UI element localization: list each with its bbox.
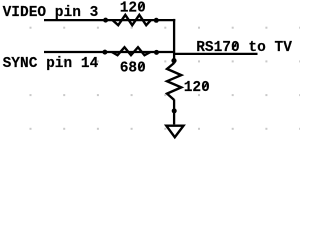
wire SYNC input horizontal (44, 51, 174, 53)
ground (166, 126, 183, 138)
junction dot VIDEO wire right (154, 18, 159, 23)
svg-text:VIDEO pin 3: VIDEO pin 3 (3, 5, 99, 21)
junction dot VIDEO wire left (103, 18, 108, 23)
slash of zero in RS170 (232, 43, 237, 50)
svg-text:120: 120 (184, 80, 210, 96)
resistor R2 680 (SYNC series) (112, 47, 151, 76)
junction dot ground lead (172, 108, 177, 113)
wire output bus vertical (173, 19, 175, 64)
junction dot SYNC wire right (154, 50, 159, 55)
junction dot SYNC wire left (102, 50, 107, 55)
wire VIDEO input horizontal (44, 19, 175, 21)
wire ground lead (173, 100, 175, 125)
svg-text:SYNC pin 14: SYNC pin 14 (3, 56, 99, 72)
slash of zero in 680 (139, 63, 144, 70)
resistor R1 120 (VIDEO series) (113, 1, 151, 26)
junction dot bus output node (171, 58, 176, 63)
resistor R3 120 (shunt to ground) (167, 63, 210, 100)
svg-text:120: 120 (120, 1, 146, 17)
slash of zero in 120 (139, 3, 144, 10)
slash of zero in 120 (203, 83, 208, 90)
svg-text:680: 680 (120, 61, 146, 77)
wire RS170 output to TV (174, 53, 258, 55)
